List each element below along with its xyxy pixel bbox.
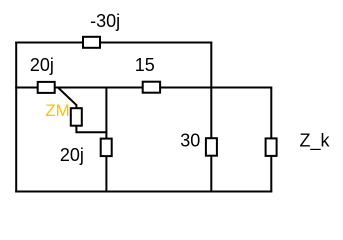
svg-text:ZM: ZM: [45, 101, 70, 120]
resistor 15 box: [143, 82, 160, 93]
svg-text:20j: 20j: [60, 145, 84, 165]
capacitor -30j box: [83, 37, 100, 48]
wire: top horizontal: [15, 42, 212, 44]
svg-text:15: 15: [135, 55, 155, 75]
wire: left rail vertical: [15, 42, 17, 193]
svg-text:-30j: -30j: [90, 11, 120, 31]
resistor 30 box (vertical): [206, 138, 217, 156]
wire: middle horizontal: [15, 87, 272, 89]
impedance ZM box (vertical): [71, 108, 82, 126]
wire: bottom horizontal: [15, 191, 272, 193]
inductor 20j box (vertical): [101, 139, 112, 157]
wire: rail vertical at x=211.3: [210, 43, 212, 192]
impedance Z_k box (vertical): [266, 138, 277, 156]
wire: L from ZM impedance bottom to rail: [76, 126, 107, 133]
wire: diagonal branch to ZM impedance: [59, 88, 77, 108]
wire: right rail vertical at x=271.3: [270, 88, 272, 192]
svg-text:20j: 20j: [30, 55, 54, 75]
svg-text:30: 30: [180, 131, 200, 151]
inductor 20j box (horizontal): [38, 82, 55, 93]
wire: rail vertical at x=106.5: [105, 88, 107, 192]
svg-text:Z_k: Z_k: [300, 131, 331, 152]
